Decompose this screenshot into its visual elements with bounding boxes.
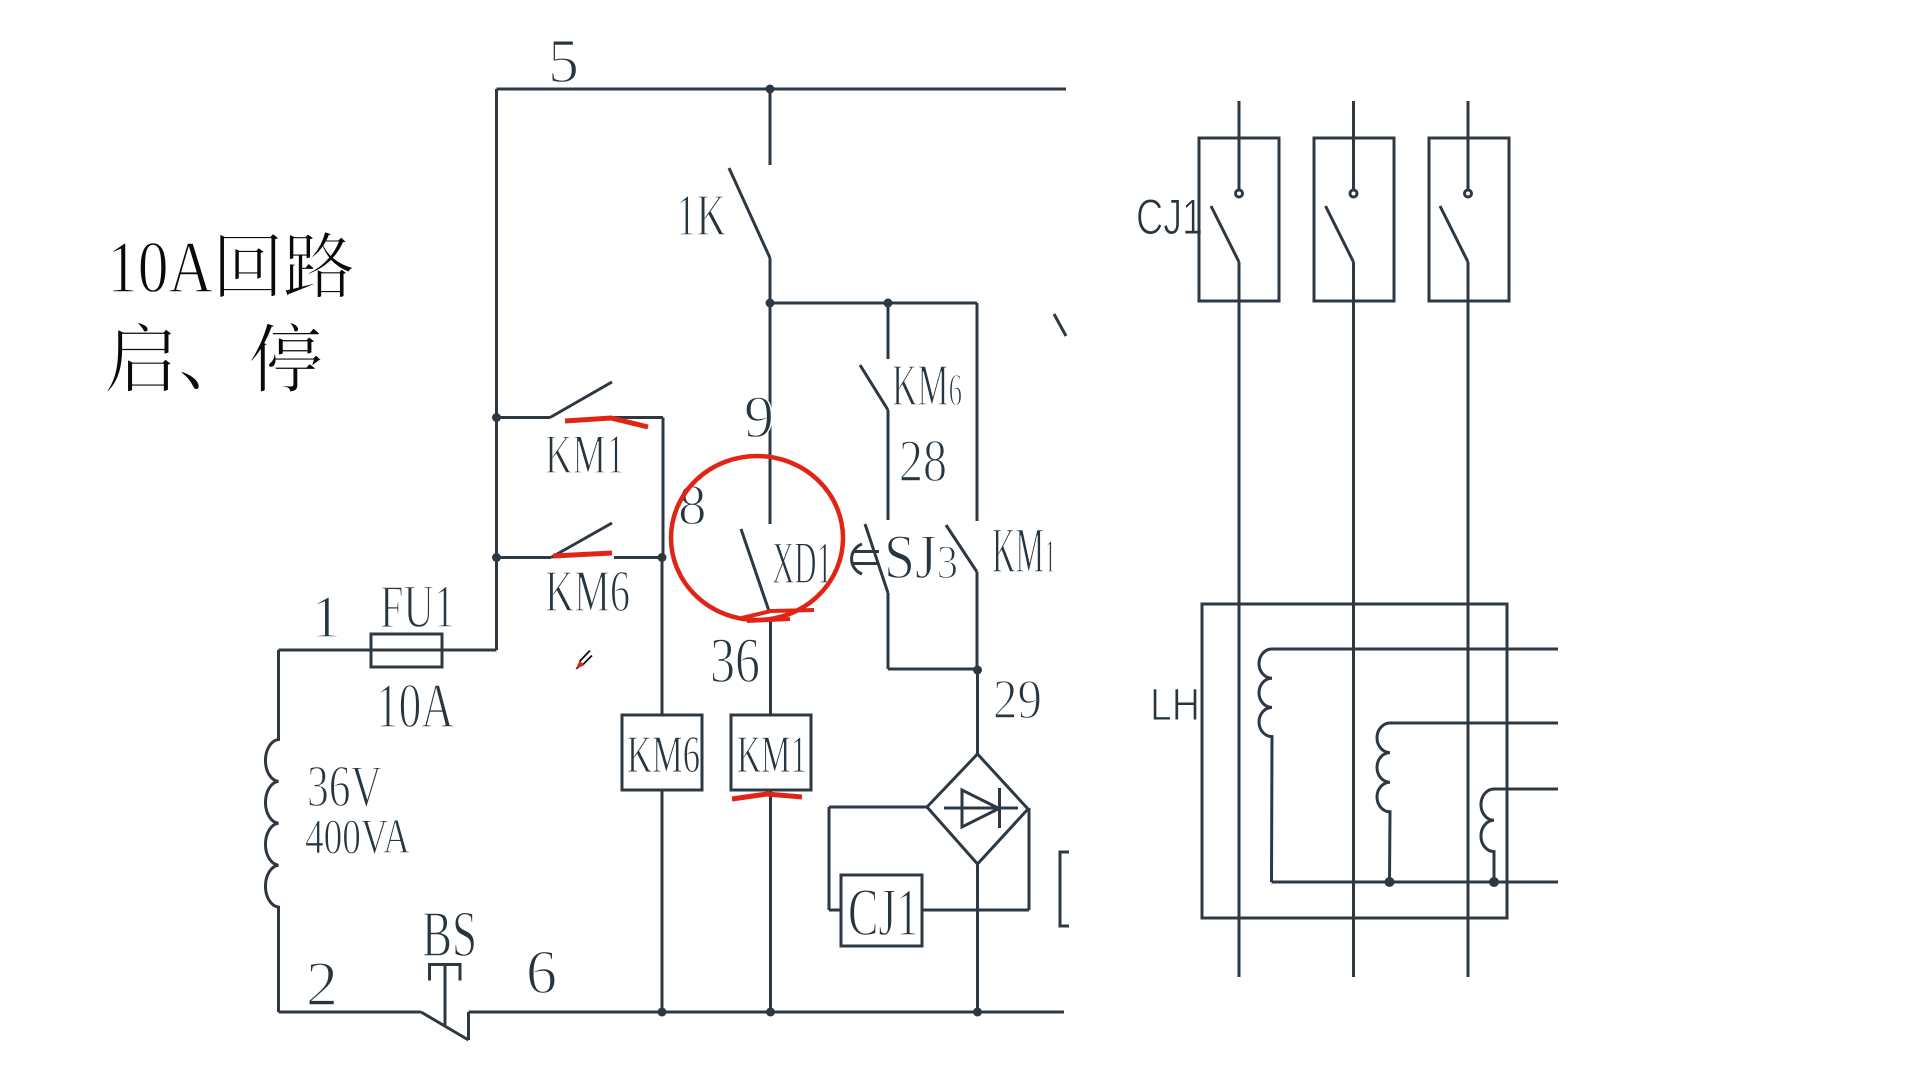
red underline KM1 coil [732, 794, 802, 799]
contact KM6 (middle branch) [860, 303, 888, 520]
pushbutton BS (stop) [421, 965, 469, 1041]
junction CT B common [1385, 877, 1395, 887]
contact KM6 (self-holding) [497, 523, 663, 558]
svg-text:XD1: XD1 [772, 530, 832, 596]
contactor CJ1 main contact box phase B [1314, 138, 1394, 301]
wire KM6 coil to bottom [661, 790, 664, 1012]
junction bottom / KM1 coil [766, 1008, 775, 1017]
label CJ1 contacts [1136, 189, 1203, 245]
title glyph dunhao [181, 371, 199, 389]
coil KM6 (contactor coil) [622, 715, 702, 790]
node 28 label [899, 428, 947, 494]
title glyph qi [107, 322, 172, 391]
fuse FU1 [279, 634, 497, 667]
contactor CJ1 main contact phase C [1440, 101, 1472, 262]
coil KM1 (contactor coil) [731, 715, 811, 790]
svg-text:CJ1: CJ1 [848, 874, 919, 950]
label KM6 contact [545, 558, 630, 624]
wire bus 5 (top horizontal) [497, 88, 1067, 91]
time-delay contact SJ3 [852, 524, 888, 669]
label KM6 middle [892, 352, 962, 418]
contact XD1 [741, 529, 771, 715]
node 29 label [993, 669, 1042, 731]
node 2 label [306, 948, 338, 1019]
title glyph lu [285, 232, 353, 298]
label FU1 [380, 574, 455, 641]
junction node 29 [973, 666, 982, 675]
CT winding phase C [1481, 789, 1558, 882]
node 36 label [710, 625, 760, 697]
label 400VA [305, 808, 410, 864]
title glyph ting [250, 322, 321, 392]
wire node 29 to rectifier [976, 670, 979, 754]
phase A conductor [1238, 262, 1241, 977]
junction left vertical / KM6 contact [492, 553, 501, 562]
bracket (cropped box) [1060, 852, 1069, 926]
switch 1K [729, 89, 770, 303]
label XD1 [772, 530, 832, 596]
wire 1K bottom to right branches [770, 302, 977, 305]
svg-text:2: 2 [306, 948, 338, 1019]
svg-text:28: 28 [899, 428, 947, 494]
svg-text:5: 5 [548, 28, 579, 96]
svg-text:KM1: KM1 [545, 424, 625, 486]
current transformer LH box [1202, 604, 1507, 918]
node 9 label [744, 384, 774, 450]
junction top bus / 1K [766, 85, 775, 94]
contact KM1 (right branch) [946, 303, 977, 670]
svg-text:FU1: FU1 [380, 574, 455, 641]
bridge rectifier [927, 754, 1028, 864]
label KM1 coil [737, 726, 807, 784]
label KM1 contact [545, 424, 625, 486]
svg-text:1K: 1K [676, 182, 726, 248]
wire bottom left [279, 1011, 422, 1014]
node 6 label [526, 939, 557, 1007]
contactor CJ1 main contact box phase A [1199, 138, 1279, 301]
wire bottom (node 6 bus) [469, 1011, 1065, 1014]
transformer winding 36V 400VA [265, 650, 278, 1012]
phase B conductor [1352, 262, 1355, 977]
label CJ1 coil [848, 874, 919, 950]
cut-off contact tick [1054, 314, 1066, 336]
svg-text:BS: BS [422, 898, 477, 971]
red mark over KM6 contact [553, 553, 612, 556]
junction node 8 [658, 553, 667, 562]
svg-text:LH: LH [1150, 679, 1200, 730]
svg-text:400VA: 400VA [305, 808, 410, 864]
svg-text:9: 9 [744, 384, 774, 450]
contactor CJ1 main contact box phase C [1429, 138, 1509, 301]
phase C conductor [1467, 262, 1470, 977]
title glyph hui [220, 233, 279, 297]
svg-text:CJ1: CJ1 [1136, 189, 1203, 245]
lamp contact XD1 branch node 9 [769, 303, 772, 524]
CT winding phase B [1377, 723, 1558, 882]
node 5 label [548, 28, 579, 96]
junction left vertical / KM1 contact [492, 413, 501, 422]
wire rectifier AC left to CJ1 coil [829, 807, 927, 910]
red circle around XD1 [671, 456, 843, 620]
wire left vertical from bus to fuse [495, 89, 498, 650]
svg-text:10A: 10A [376, 671, 454, 741]
label KM1 right [992, 515, 1056, 587]
svg-text:KM6: KM6 [627, 726, 700, 784]
contactor CJ1 main contact phase B [1326, 101, 1358, 262]
junction KM6 branch [884, 299, 893, 308]
label 10A (fuse rating) [376, 671, 454, 741]
wire SJ3 to node 29 [888, 668, 978, 671]
label 1K [676, 182, 726, 248]
label 36V [307, 753, 382, 819]
wire CJ1 coil to rectifier AC right [922, 808, 1029, 910]
label KM6 coil [627, 726, 700, 784]
title 10A circuit line 1 [107, 227, 213, 309]
diode symbol [944, 788, 1018, 828]
svg-text:KM6: KM6 [545, 558, 630, 624]
coil CJ1 (relay coil) [841, 875, 922, 946]
node 8 label [678, 474, 707, 537]
wire rectifier DC minus to bottom [976, 864, 979, 1012]
wire node 8 down to KM6 coil [661, 558, 664, 716]
red underline XD1 [742, 610, 814, 621]
contactor CJ1 main contact phase A [1211, 101, 1243, 262]
junction node 7 (1K bottom) [766, 299, 775, 308]
CT winding phase A [1259, 649, 1558, 882]
svg-text:10A: 10A [107, 227, 213, 309]
red mark over KM1 contact [565, 418, 648, 427]
label LH [1150, 679, 1200, 730]
CT secondary common wire [1272, 881, 1559, 884]
junction bottom / rectifier [973, 1008, 982, 1017]
svg-text:6: 6 [526, 939, 557, 1007]
junction bottom / KM6 coil [658, 1008, 667, 1017]
svg-text:29: 29 [993, 669, 1042, 731]
pencil cursor [576, 651, 593, 670]
svg-text:KM1: KM1 [737, 726, 807, 784]
svg-text:1: 1 [311, 584, 341, 650]
label SJ3 [884, 522, 958, 592]
label BS [422, 898, 477, 971]
junction CT C common [1489, 877, 1499, 887]
wire KM1 coil to bottom [769, 790, 772, 1012]
svg-text:36: 36 [710, 625, 760, 697]
contact KM1 (self-holding) [497, 382, 664, 558]
node 1 label [311, 584, 341, 650]
